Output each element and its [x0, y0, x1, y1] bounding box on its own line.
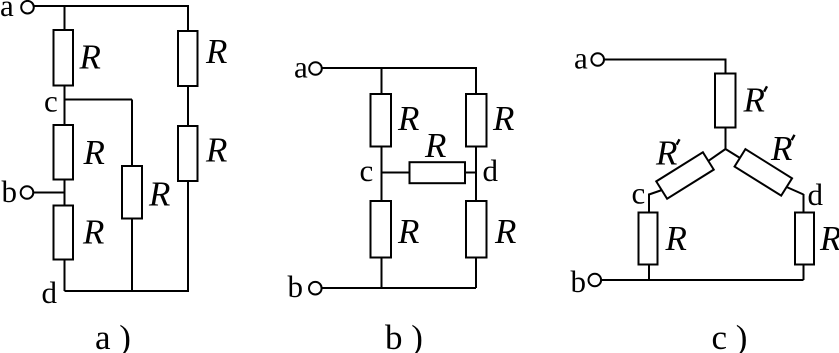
- svg-text:c: c: [44, 84, 58, 119]
- svg-text:a ): a ): [95, 318, 131, 353]
- svg-text:R: R: [397, 99, 419, 138]
- wire node to right arm (fig c): [726, 149, 741, 158]
- svg-text:b: b: [288, 269, 304, 304]
- wire left mid (fig b): [381, 147, 383, 202]
- svg-text:R: R: [492, 99, 514, 138]
- terminal a (fig a): [21, 1, 34, 14]
- wire left lower (fig a): [64, 260, 66, 292]
- wire right arm to d (fig c): [787, 187, 804, 195]
- wire left lower (fig c): [648, 265, 650, 281]
- wire middle branch upper (fig a): [131, 100, 133, 167]
- wire bridge left (fig b): [382, 172, 410, 174]
- wire right upper (fig a): [187, 6, 189, 31]
- svg-text:R: R: [397, 212, 419, 251]
- svg-text:a: a: [294, 50, 308, 85]
- wire left upper (fig b): [381, 68, 383, 94]
- wire left upper (fig a): [64, 6, 66, 31]
- svg-text:R: R: [82, 213, 104, 252]
- wire terminal b (fig a): [34, 192, 65, 194]
- wire bottom (fig a): [65, 290, 190, 292]
- wire left lower (fig b): [381, 258, 383, 289]
- resistor R bridge (fig b): [410, 162, 466, 183]
- wire node stem (fig c): [725, 128, 727, 149]
- wire right mid (fig a): [187, 86, 189, 126]
- terminal b (fig b): [309, 282, 322, 295]
- wire top (fig c): [604, 59, 727, 61]
- svg-text:R: R: [743, 81, 765, 120]
- wire node to left arm (fig c): [708, 149, 726, 161]
- label R' top (fig c): [743, 81, 768, 120]
- wire left mid (fig a): [64, 86, 66, 126]
- svg-text:d: d: [483, 153, 499, 188]
- resistor R middle (fig a): [122, 166, 142, 219]
- svg-text:R: R: [79, 38, 101, 77]
- svg-text:R: R: [665, 219, 687, 258]
- svg-text:d: d: [808, 177, 824, 212]
- resistor R left-2 (fig a): [54, 125, 74, 180]
- svg-text:R: R: [655, 134, 677, 173]
- svg-text:R: R: [494, 212, 516, 251]
- terminal a (fig b): [309, 62, 322, 75]
- svg-text:R: R: [205, 32, 227, 71]
- resistor R' right diagonal (fig c): [735, 149, 793, 196]
- resistor R right-top (fig b): [466, 94, 487, 147]
- resistor R right (fig c): [795, 213, 814, 265]
- svg-text:c: c: [360, 153, 374, 188]
- wire c vertical (fig c): [648, 194, 650, 213]
- resistor R right-bottom (fig b): [466, 201, 487, 258]
- svg-text:b: b: [2, 174, 18, 209]
- wire node c horizontal (fig a): [65, 99, 133, 101]
- resistor R' left diagonal (fig c): [656, 152, 714, 199]
- resistor R left-1 (fig a): [54, 30, 74, 86]
- svg-text:d: d: [42, 275, 58, 310]
- terminal b (fig a): [21, 186, 34, 199]
- svg-text:R: R: [424, 126, 446, 165]
- wire top (fig a): [34, 5, 189, 7]
- svg-text:b: b: [571, 264, 587, 299]
- wire right upper (fig b): [475, 68, 477, 94]
- label R' left (fig c): [655, 134, 680, 173]
- wire d vertical (fig c): [803, 194, 805, 213]
- svg-text:c ): c ): [712, 318, 748, 353]
- wire right mid (fig b): [475, 147, 477, 202]
- svg-text:R: R: [83, 133, 105, 172]
- resistor R' top (fig c): [715, 74, 736, 128]
- wire right lower (fig a): [187, 181, 189, 291]
- wire bottom (fig b): [322, 287, 476, 289]
- wire bridge right (fig b): [466, 172, 477, 174]
- svg-text:a: a: [0, 0, 14, 23]
- svg-text:R: R: [819, 219, 839, 258]
- label R' right (fig c): [770, 129, 795, 168]
- resistor R right-2 (fig a): [178, 126, 198, 181]
- svg-text:b ): b ): [385, 318, 423, 353]
- wire left between R2 R3 (fig a): [64, 180, 66, 207]
- terminal b (fig c): [589, 274, 602, 287]
- svg-text:R: R: [770, 129, 792, 168]
- resistor R left-top (fig b): [371, 94, 392, 147]
- wire top (fig b): [322, 67, 477, 69]
- wire right lower (fig b): [475, 258, 477, 289]
- svg-text:c: c: [632, 176, 646, 211]
- svg-text:R: R: [148, 175, 170, 214]
- resistor R left-bottom (fig b): [371, 201, 392, 258]
- svg-text:a: a: [574, 41, 588, 76]
- resistor R right-1 (fig a): [178, 31, 198, 86]
- wire top vertical (fig c): [725, 60, 727, 74]
- wire left arm to c (fig c): [649, 190, 662, 195]
- wire middle branch lower (fig a): [131, 219, 133, 292]
- svg-text:R: R: [205, 131, 227, 170]
- wire bottom (fig c): [601, 279, 803, 281]
- resistor R left (fig c): [639, 213, 658, 265]
- terminal a (fig c): [591, 53, 604, 66]
- resistor R left-3 (fig a): [54, 206, 74, 260]
- wire right lower (fig c): [803, 265, 805, 281]
